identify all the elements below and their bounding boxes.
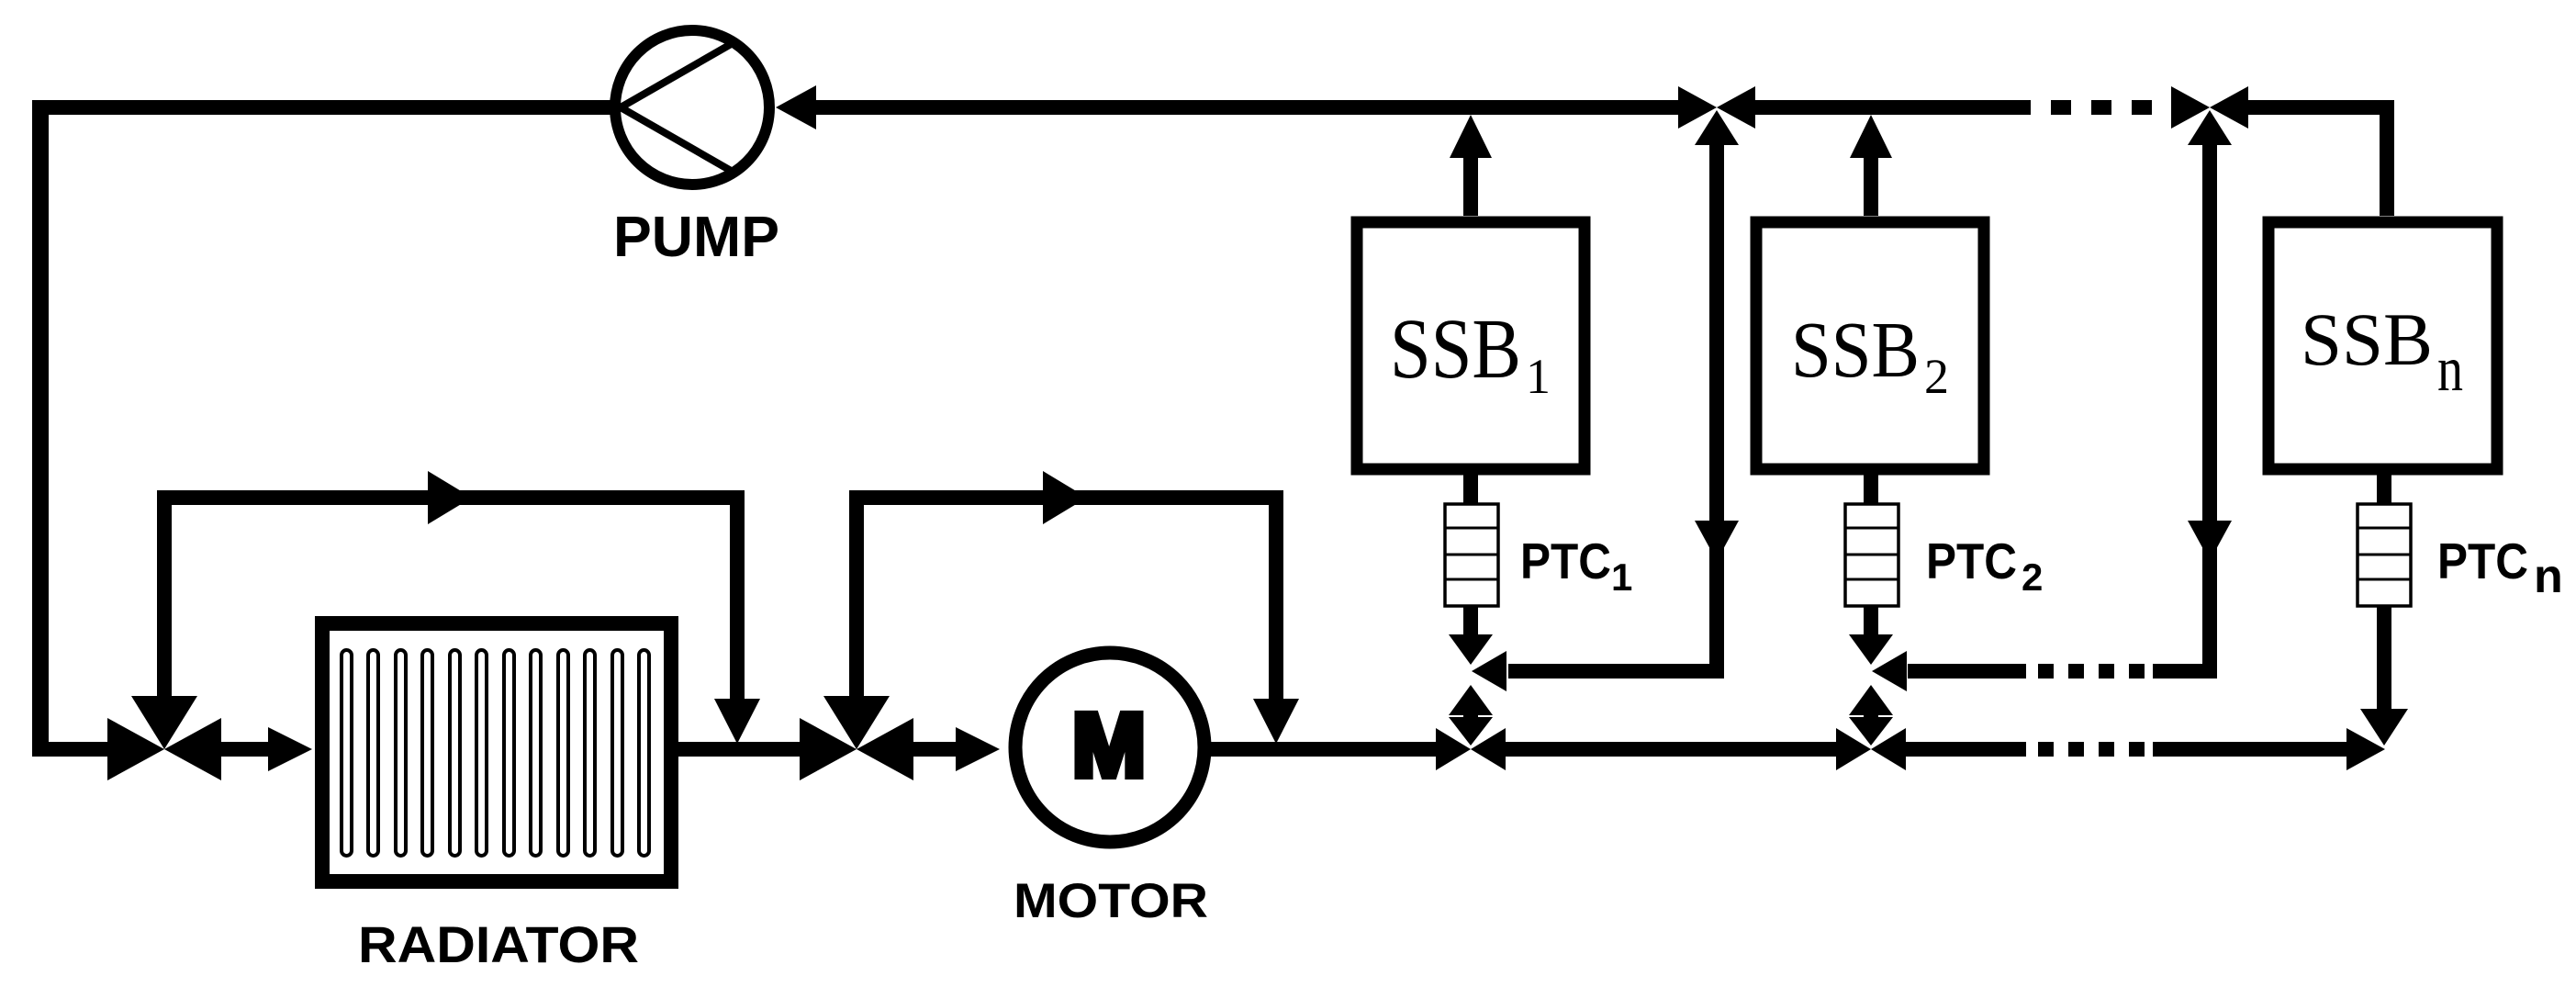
motor bypass arrow right-pointing [1043,471,1087,524]
arrow down on vertical 2 [2188,521,2232,561]
double arrow up-pointing below PTC1 junction [1449,685,1493,715]
wire: junction G to dashed part [1906,742,2026,757]
double arrow down-pointing above junction E [1449,717,1493,746]
double arrow stub PTC2 column [1864,712,1878,720]
SSB2 to PTC2 stub [1864,469,1878,504]
PTC2 internal line 3 [1845,578,1898,581]
arrow down-pointing into PTC2 junction [1849,634,1893,665]
wire: vertical line below junction 2 [2202,140,2217,679]
radiator fin 1 [342,650,352,856]
PTC2 lower stub [1864,606,1878,635]
svg-text:MOTOR: MOTOR [1014,874,1208,928]
thermistor PTC1 body [1445,504,1498,606]
junction 1 arrow right-pointing [1678,86,1717,129]
radiator bypass right vertical [730,490,745,700]
radiator fin 10 [585,650,595,856]
junction A arrow down-pointing [131,696,197,749]
wire: top line junction 1 to dashed part [1755,100,2010,115]
junction 2 arrow right-pointing [2171,86,2210,129]
junction G arrow left-pointing [1871,728,1906,770]
wire: dashed line to PTC2 junction [2038,664,2146,679]
wire: bottom right solid segment [2153,742,2346,757]
svg-text:PTC: PTC [1520,533,1611,589]
radiator fin 6 [476,650,487,856]
svg-text:1: 1 [1526,349,1551,404]
wire: left vertical line [32,100,49,757]
wire: bottom dashed segment [2038,742,2146,757]
wire: junction E to junction G [1506,742,1836,757]
radiator fin 5 [450,650,460,856]
wire: vertical line below junction 1 [1709,140,1724,679]
svg-text:SSB: SSB [1791,305,1920,394]
pump internal vane lower [621,107,733,172]
wire: radiator to junction B [678,742,800,757]
wire: top line pump to junction 1 [813,100,1680,115]
PTC1 lower stub [1463,606,1478,635]
arrow down-pointing into PTC1 junction [1449,634,1493,665]
junction G arrow right-pointing [1836,728,1871,770]
junction E arrow left-pointing [1471,728,1506,770]
thermistor PTC2 body [1845,504,1898,606]
SSBn to PTCn stub [2377,469,2391,504]
radiator bypass arrow right-pointing [428,471,472,524]
svg-text:1: 1 [1611,555,1632,599]
junction 2 arrow left-pointing [2210,86,2248,129]
block SSB1 box [1357,222,1585,469]
radiator fin 8 [531,650,541,856]
SSB1 riser wire [1463,151,1478,216]
wire: junction A to radiator [218,742,269,757]
junction A arrow left-pointing [164,718,221,780]
svg-text:PTC: PTC [1926,533,2017,589]
radiator fin 7 [504,650,514,856]
junction B arrow right-pointing [800,718,857,780]
junction E arrow right-pointing [1436,728,1471,770]
wire: junction B to motor arrow [913,742,958,757]
junction B arrow left-pointing [857,718,913,780]
wire: horizontal line to PTC1 junction [1508,664,1724,679]
arrow down-pointing at PTCn junction [2360,709,2408,746]
svg-text:RADIATOR: RADIATOR [358,915,639,973]
wire: solid part of line to PTC2 junction [1908,664,2026,679]
wire: top line dashed segment [2010,100,2159,115]
radiator box [322,623,671,881]
radiator fin 12 [639,650,649,856]
double arrow stub PTC1 column [1463,712,1478,720]
svg-text:2: 2 [2022,555,2043,599]
svg-text:SSB: SSB [2301,297,2433,381]
radiator bypass left vertical [157,490,172,696]
radiator fin 3 [396,650,406,856]
arrow left-pointing into PTC1 junction [1472,651,1506,691]
arrow right-pointing into PTCn junction [2346,728,2385,770]
arrow into radiator [268,727,312,771]
svg-text:2: 2 [1924,349,1949,404]
PTC1 internal line 3 [1445,578,1498,581]
junction 2 arrow up-pointing [2188,110,2232,145]
double arrow up-pointing below PTC2 junction [1849,685,1893,715]
svg-text:M: M [1072,695,1146,795]
pump internal vane upper [621,43,733,107]
PTC1 internal line 1 [1445,527,1498,530]
svg-text:SSB: SSB [1390,302,1521,397]
double arrow down-pointing above junction G [1849,717,1893,746]
radiator bypass top horizontal [157,490,745,505]
junction 1 arrow left-pointing [1717,86,1755,129]
wire: top line left segment (left corner to pump) [32,100,615,115]
motor bypass top horizontal [849,490,1283,505]
pump PUMP symbol circle [615,30,769,185]
radiator fin 2 [368,650,378,856]
wire: SSBn riser vertical [2380,100,2394,216]
junction A arrow right-pointing [107,718,164,780]
block SSB2 box [1756,222,1984,469]
PTCn internal line 2 [2358,554,2411,556]
radiator fin 4 [422,650,432,856]
junction 1 arrow up-pointing [1695,110,1739,145]
motor M circle [1015,653,1204,842]
PTCn internal line 3 [2358,578,2411,581]
svg-text:n: n [2534,550,2563,603]
junction B arrow down-pointing [823,696,890,749]
wire: top line right segment to SSBn corner [2248,100,2394,115]
thermistor PTCn body [2358,504,2411,606]
motor bypass arrow down-pointing [1253,699,1299,744]
motor bypass right vertical [1269,490,1283,700]
wire: bottom line left corner segment [32,742,126,757]
motor bypass left vertical [849,490,864,696]
wire: solid corner part near vertical 2 [2153,664,2217,679]
SSB1 riser arrow up-pointing [1450,115,1492,158]
arrow left-pointing into PTC2 junction [1872,651,1907,691]
wire: motor to junction E [1211,742,1436,757]
SSB1 to PTC1 stub [1463,469,1478,504]
radiator fin 11 [612,650,622,856]
svg-text:n: n [2437,334,2463,405]
PTCn internal line 1 [2358,527,2411,530]
arrow down on vertical 1 [1695,521,1739,561]
block SSBn box [2268,222,2497,469]
PTC2 internal line 1 [1845,527,1898,530]
PTC1 internal line 2 [1445,554,1498,556]
PTCn lower stub [2377,606,2391,710]
radiator bypass arrow down-pointing [714,699,760,744]
svg-text:PUMP: PUMP [613,206,779,269]
radiator fin 9 [558,650,568,856]
arrow into pump (left-pointing) [776,85,816,129]
SSB2 riser wire [1864,151,1878,216]
arrow into motor [956,727,1000,771]
svg-text:PTC: PTC [2437,533,2528,589]
PTC2 internal line 2 [1845,554,1898,556]
SSB2 riser arrow up-pointing [1850,115,1892,158]
